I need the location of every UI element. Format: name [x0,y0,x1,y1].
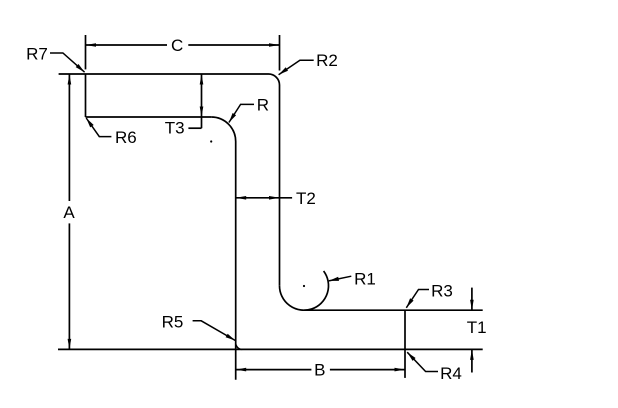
dimension T1 down arrowhead [470,300,474,311]
dimension A line lower segment [68,223,70,349]
svg-text:T1: T1 [467,318,487,337]
profile: top flange top edge (with A extension line to the left) [59,73,269,75]
dimension T3 up arrowhead [200,74,204,85]
dimension C line right segment [188,44,279,46]
svg-text:R3: R3 [431,282,453,301]
svg-text:T2: T2 [296,189,316,208]
dimension T2 left arrowhead [236,196,247,200]
dimension C left arrowhead [86,43,97,47]
dimension B right arrowhead [395,368,406,372]
svg-text:R: R [257,96,269,115]
leader R4 [407,352,438,371]
dimension B left arrowhead [236,368,247,372]
profile: top flange inner bottom edge [86,116,212,118]
profile: fillet R1 arc web-to-bottom-flange [280,271,329,310]
svg-text:T3: T3 [165,119,185,138]
leader R [229,104,254,122]
dimension A down arrowhead [68,339,72,350]
leader R7 [50,53,85,72]
dimension T3 down arrowhead [200,107,204,118]
profile: web inner left edge (with B extension below) [235,142,237,380]
dimension T2 right arrowhead [269,196,280,200]
dimension C line left segment [86,44,168,46]
leader R1 [329,276,352,281]
dimension T1 lower arrow line [471,349,473,372]
dimension C extension line right [279,35,281,71]
profile: fillet R arc web-to-top-flange inner corner [211,117,236,142]
dimension T3 line [201,74,203,128]
leader R3 [406,290,429,308]
center mark of fillet R1 [303,285,305,287]
dimension B line left segment [236,369,312,371]
svg-text:R1: R1 [354,269,376,288]
profile: bottom flange right edge (with B extension below) [404,310,406,378]
dimension A up arrowhead [68,74,72,85]
dimension A line upper segment [68,74,70,201]
leader R2 [279,60,314,74]
svg-text:R5: R5 [162,313,184,332]
svg-text:R2: R2 [316,51,338,70]
dimension T1 upper arrow line [471,288,473,311]
dimension C right arrowhead [269,43,280,47]
leader R5 [193,321,236,341]
svg-text:R7: R7 [26,44,48,63]
dimension B line right segment [330,369,405,371]
profile: small fillet R5 at web/bottom-flange outside corner [236,343,243,350]
dimension T1 up arrowhead [470,349,474,360]
svg-text:R4: R4 [440,364,462,383]
dimension T2 line [236,197,292,199]
svg-text:C: C [171,36,183,55]
profile: bottom flange bottom edge (with A extension left and T1 extension right) [58,348,483,350]
dimension T3 connector to label [188,127,201,129]
profile: fillet R2 top-right corner [269,74,280,85]
svg-text:R6: R6 [115,128,137,147]
dimension C extension line left [85,35,87,69]
profile: web outer right edge [279,85,281,286]
center mark of fillet R [210,140,212,142]
profile: top flange left edge [85,74,87,117]
leader R6 [86,118,111,137]
svg-text:B: B [314,361,325,380]
svg-text:A: A [63,203,75,222]
profile: bottom flange top edge (with T1 extension line to the right) [304,309,483,311]
